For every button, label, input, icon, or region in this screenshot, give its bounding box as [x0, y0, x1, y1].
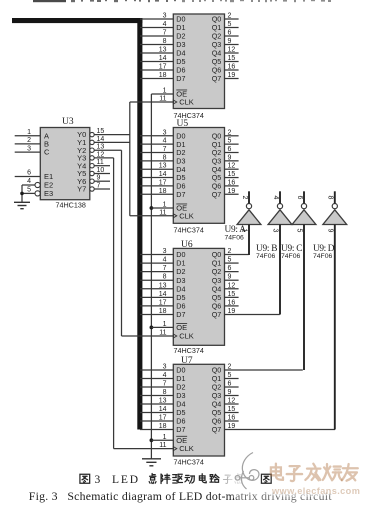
svg-text:13: 13: [159, 282, 167, 289]
wire U4 D5 (pin 14): [140, 61, 173, 63]
wire U7 OE (pin 1): [151, 439, 173, 441]
svg-text:7: 7: [97, 183, 101, 190]
wire U7 Q3 (pin 9): [225, 395, 239, 397]
inversion bubble Y3: [90, 156, 94, 160]
wire U4 Q2 (pin 6): [225, 35, 239, 37]
svg-text:2: 2: [228, 129, 232, 136]
svg-text:4: 4: [27, 178, 31, 185]
wire U9: B output (pin 4): [279, 191, 281, 203]
svg-text:15: 15: [228, 171, 236, 178]
svg-text:12: 12: [228, 163, 236, 170]
svg-text:3: 3: [27, 145, 31, 152]
svg-text:U3: U3: [62, 117, 74, 127]
wire U7 Q2 (pin 6): [225, 386, 239, 388]
wire U3 Y4 (pin 11): [94, 165, 110, 167]
svg-text:8: 8: [163, 389, 167, 396]
svg-text:19: 19: [228, 188, 236, 195]
wire U3 Y5 (pin 10): [94, 173, 110, 175]
svg-text:3: 3: [163, 129, 167, 136]
wire U4 OE (pin 1): [151, 93, 173, 95]
ground (OE net): [142, 459, 161, 466]
svg-text:Q7: Q7: [212, 425, 222, 434]
wire U6 Q1 (pin 5): [225, 262, 239, 264]
svg-text:74HC374: 74HC374: [174, 457, 204, 466]
clock triangle U5: [173, 214, 177, 218]
wire U5 D1 (pin 4): [140, 143, 173, 145]
inverter U9: B (74F06): [268, 204, 292, 225]
svg-text:Q7: Q7: [212, 310, 222, 319]
wire U4 D7 (pin 18): [140, 78, 173, 80]
wire U5 Q4 (pin 12): [225, 168, 239, 170]
wire E2-E3 tie: [21, 185, 23, 202]
watermark halo: [228, 459, 372, 497]
wire net Y2-CLK(U6) vertical: [121, 150, 123, 336]
svg-text:15: 15: [228, 291, 236, 298]
svg-text:3: 3: [163, 364, 167, 371]
wire U4 D2 (pin 7): [140, 35, 173, 37]
inversion bubble Y6: [90, 179, 94, 183]
svg-text:16: 16: [228, 64, 236, 71]
wire U3 pin 5 (E3): [22, 192, 35, 194]
wire U3 Y3 (pin 12): [94, 157, 113, 159]
svg-text:16: 16: [228, 415, 236, 422]
svg-text:15: 15: [228, 55, 236, 62]
wire U9: A input (pin 1): [248, 225, 250, 256]
svg-text:5: 5: [27, 187, 31, 194]
inversion bubble Y0: [90, 132, 94, 136]
svg-text:10: 10: [97, 167, 105, 174]
svg-text:74F06: 74F06: [256, 253, 275, 260]
svg-text:1: 1: [163, 321, 167, 328]
wire U5 D7 (pin 18): [140, 193, 173, 195]
svg-text:8: 8: [327, 196, 334, 200]
wire U5 Q7 (pin 19): [225, 193, 239, 195]
wire U9: C output (pin 6): [303, 191, 305, 203]
svg-text:9: 9: [97, 175, 101, 182]
wire U6 D7 (pin 18): [140, 313, 173, 315]
wire U7 D2 (pin 7): [140, 386, 173, 388]
wire U3 pin 1 (A): [15, 135, 41, 137]
svg-text:5: 5: [228, 138, 232, 145]
svg-text:13: 13: [159, 47, 167, 54]
svg-text:2: 2: [228, 364, 232, 371]
svg-text:7: 7: [163, 265, 167, 272]
wire U4 D0 (pin 3): [140, 18, 173, 20]
wire U3 Y6 (pin 9): [94, 180, 110, 182]
inversion bubble E2: [35, 182, 40, 187]
wire U6 D3 (pin 8): [140, 279, 173, 281]
wire U5 D2 (pin 7): [140, 152, 173, 154]
svg-text:17: 17: [159, 179, 167, 186]
svg-text:15: 15: [228, 406, 236, 413]
wire net Y0/Y1-CLK vertical: [129, 102, 131, 216]
wire U3 Y0 (pin 15): [94, 134, 130, 136]
wire U6 D0 (pin 3): [140, 254, 173, 256]
bus: thick data bus (horizontal top segment): [12, 18, 142, 23]
wire U4 Q1 (pin 5): [225, 27, 239, 29]
wire U6 Q0 (pin 2): [225, 254, 249, 256]
wire U7 Q7 (pin 19): [225, 429, 336, 431]
svg-text:D7: D7: [176, 74, 185, 83]
svg-text:9: 9: [228, 154, 232, 161]
svg-text:4: 4: [163, 372, 167, 379]
watermark logo swirl: [235, 453, 259, 490]
svg-text:74F06: 74F06: [225, 234, 244, 241]
svg-text:9: 9: [228, 274, 232, 281]
wire U5 Q3 (pin 9): [225, 160, 239, 162]
svg-text:7: 7: [163, 381, 167, 388]
wire U3 Y7 (pin 7): [94, 188, 110, 190]
wire U7 Q6 (pin 16): [225, 420, 239, 422]
wire net OE vertical: [150, 94, 152, 459]
svg-text:14: 14: [97, 136, 105, 143]
wire U9: D output (pin 8): [334, 191, 336, 203]
wire U4 CLK (pin 11): [130, 101, 174, 103]
svg-text:14: 14: [159, 55, 167, 62]
junction E2/E3: [20, 192, 24, 196]
svg-text:74HC138: 74HC138: [56, 201, 86, 210]
svg-text:3: 3: [163, 248, 167, 255]
wire U7 D4 (pin 13): [140, 403, 173, 405]
junction OE-U5: [150, 206, 154, 210]
svg-text:11: 11: [159, 96, 166, 103]
svg-text:5: 5: [296, 229, 303, 233]
caption line 1 (Chinese): 图3 LED 点阵驱动电路原理图: [80, 474, 90, 483]
svg-text:13: 13: [159, 163, 167, 170]
svg-text:14: 14: [159, 406, 167, 413]
clock triangle U6: [173, 334, 177, 338]
svg-text:D7: D7: [176, 310, 185, 319]
wire U6 OE (pin 1): [151, 326, 173, 328]
svg-text:11: 11: [159, 209, 166, 216]
op U5 octal flip-flop 74HC374: [173, 128, 224, 224]
inversion bubble E3: [35, 191, 40, 196]
svg-text:17: 17: [159, 415, 167, 422]
inverter U9: C (74F06): [292, 204, 316, 225]
svg-text:U7: U7: [181, 356, 193, 366]
svg-text:2: 2: [228, 248, 232, 255]
svg-text:Q7: Q7: [212, 190, 222, 199]
svg-text:3: 3: [163, 13, 167, 20]
svg-text:6: 6: [228, 146, 232, 153]
svg-text:17: 17: [159, 64, 167, 71]
wire U5 D5 (pin 14): [140, 177, 173, 179]
bus: thick data bus (vertical segment): [137, 18, 142, 430]
svg-text:4: 4: [163, 257, 167, 264]
svg-text:D7: D7: [176, 190, 185, 199]
svg-text:19: 19: [228, 72, 236, 79]
svg-text:6: 6: [228, 265, 232, 272]
svg-text:11: 11: [97, 159, 104, 166]
inversion bubble Y4: [90, 164, 94, 168]
svg-text:6: 6: [228, 381, 232, 388]
caption last char 图: [261, 474, 271, 483]
svg-text:E3: E3: [44, 189, 53, 198]
svg-text:14: 14: [159, 291, 167, 298]
svg-text:CLK: CLK: [179, 211, 194, 220]
svg-text:9: 9: [228, 38, 232, 45]
wire U6 D4 (pin 13): [140, 288, 173, 290]
wire U4 Q7 (pin 19): [225, 78, 239, 80]
svg-text:74F06: 74F06: [281, 253, 300, 260]
wire U7 Q0 (pin 2): [225, 369, 303, 371]
wire U5 D3 (pin 8): [140, 160, 173, 162]
wire U5 Q5 (pin 15): [225, 177, 239, 179]
svg-text:14: 14: [159, 171, 167, 178]
wire U7 D7 (pin 18): [140, 429, 173, 431]
wire U4 Q6 (pin 16): [225, 69, 239, 71]
wire U3 Y1 (pin 14): [94, 141, 130, 143]
svg-text:2: 2: [228, 13, 232, 20]
wire U7 Q5 (pin 15): [225, 412, 239, 414]
inversion bubble Y5: [90, 171, 94, 175]
svg-text:1: 1: [163, 434, 167, 441]
junction OE-U7: [150, 438, 154, 442]
svg-text:U6: U6: [181, 240, 193, 250]
svg-text:12: 12: [228, 47, 236, 54]
wire U7 D0 (pin 3): [140, 369, 173, 371]
svg-text:12: 12: [97, 151, 105, 158]
svg-text:11: 11: [159, 330, 166, 337]
wire U5 Q2 (pin 6): [225, 152, 239, 154]
svg-text:Y7: Y7: [77, 185, 86, 194]
wire U4 Q4 (pin 12): [225, 52, 239, 54]
svg-text:4: 4: [163, 138, 167, 145]
wire U6 Q3 (pin 9): [225, 279, 239, 281]
inversion bubble Y1: [90, 140, 94, 144]
wire U7 CLK (pin 11): [114, 448, 174, 450]
svg-text:5: 5: [228, 21, 232, 28]
wire net Y3-CLK(U7) vertical: [113, 158, 115, 449]
wire U5 D0 (pin 3): [140, 135, 173, 137]
wire U4 Q0 (pin 2): [225, 18, 239, 20]
wire U5 D6 (pin 17): [140, 185, 173, 187]
svg-text:74HC374: 74HC374: [174, 346, 204, 355]
svg-text:17: 17: [159, 299, 167, 306]
wire U6 D5 (pin 14): [140, 296, 173, 298]
wire U9: D input (pin 9): [334, 225, 336, 430]
svg-text:12: 12: [228, 398, 236, 405]
inversion bubble Y2: [90, 148, 94, 152]
svg-text:18: 18: [159, 188, 167, 195]
svg-text:www.elecfans.com: www.elecfans.com: [271, 486, 360, 496]
wire U9: C input (pin 5): [303, 225, 305, 371]
wire U5 OE (pin 1): [151, 207, 173, 209]
svg-text:16: 16: [228, 299, 236, 306]
svg-text:19: 19: [228, 308, 236, 315]
svg-text:6: 6: [27, 170, 31, 177]
watermark text 电子发烧友: [271, 464, 283, 480]
clock triangle U4: [173, 100, 177, 104]
svg-text:16: 16: [228, 179, 236, 186]
svg-text:11: 11: [159, 442, 166, 449]
svg-text:1: 1: [27, 129, 31, 136]
svg-text:CLK: CLK: [179, 332, 194, 341]
wire U3 pin 6 (E1): [15, 176, 41, 178]
svg-text:74F06: 74F06: [313, 253, 332, 260]
wire U5 D4 (pin 13): [140, 168, 173, 170]
wire U4 Q3 (pin 9): [225, 44, 239, 46]
svg-text:74HC374: 74HC374: [174, 226, 204, 235]
op U4 octal flip-flop 74HC374: [173, 14, 224, 109]
svg-text:2: 2: [241, 196, 248, 200]
wire U4 D1 (pin 4): [140, 27, 173, 29]
junction OE-U6: [150, 326, 154, 330]
svg-text:6: 6: [228, 30, 232, 37]
svg-text:6: 6: [296, 196, 303, 200]
svg-text:2: 2: [27, 137, 31, 144]
wire U6 Q6 (pin 16): [225, 305, 239, 307]
svg-text:7: 7: [163, 146, 167, 153]
svg-text:4: 4: [272, 196, 279, 200]
svg-text:15: 15: [97, 128, 105, 135]
svg-text:5: 5: [228, 372, 232, 379]
wire U6 CLK (pin 11): [122, 335, 174, 337]
op U7 octal flip-flop 74HC374: [173, 364, 224, 456]
op U6 octal flip-flop 74HC374: [173, 248, 224, 345]
svg-text:U9: A: U9: A: [225, 225, 247, 235]
wire U7 Q4 (pin 12): [225, 403, 239, 405]
svg-text:9: 9: [326, 229, 333, 233]
svg-text:D7: D7: [176, 425, 185, 434]
wire U7 D1 (pin 4): [140, 378, 173, 380]
svg-text:CLK: CLK: [179, 98, 194, 107]
svg-text:18: 18: [159, 423, 167, 430]
svg-text:18: 18: [159, 308, 167, 315]
op U3 decoder 74HC138: [40, 128, 90, 200]
wire U7 D6 (pin 17): [140, 420, 173, 422]
wire U6 D2 (pin 7): [140, 271, 173, 273]
svg-text:8: 8: [163, 38, 167, 45]
wire U7 Q1 (pin 5): [225, 378, 239, 380]
wire U7 D3 (pin 8): [140, 395, 173, 397]
wire U3 pin 2 (B): [15, 143, 41, 145]
inversion bubble Y7: [90, 187, 94, 191]
svg-text:5: 5: [228, 257, 232, 264]
wire U6 Q2 (pin 6): [225, 271, 239, 273]
wire U9: B input (pin 3): [279, 225, 281, 315]
svg-text:9: 9: [228, 389, 232, 396]
svg-text:3: 3: [95, 474, 101, 486]
ground (U3 enable): [14, 202, 30, 208]
wire U5 Q1 (pin 5): [225, 143, 239, 145]
wire U5 Q6 (pin 16): [225, 185, 239, 187]
wire U5 CLK (pin 11): [130, 215, 174, 217]
svg-text:19: 19: [228, 423, 236, 430]
wire U9: A output (pin 2): [248, 191, 250, 203]
wire U5 Q0 (pin 2): [225, 135, 239, 137]
wire U6 D1 (pin 4): [140, 262, 173, 264]
svg-text:U5: U5: [177, 119, 189, 129]
wire U4 D6 (pin 17): [140, 69, 173, 71]
svg-text:C: C: [44, 148, 50, 157]
wire U4 D4 (pin 13): [140, 52, 173, 54]
svg-text:1: 1: [163, 202, 167, 209]
inverter U9: A (74F06): [237, 204, 261, 225]
wire U3 pin 4 (E2): [22, 184, 35, 186]
wire U4 D3 (pin 8): [140, 44, 173, 46]
clipped text line at top edge: [33, 0, 331, 2]
wire U7 D5 (pin 14): [140, 412, 173, 414]
caption hidden chars (washed by watermark): [223, 475, 232, 483]
clock triangle U7: [173, 447, 177, 451]
wire U3 Y2 (pin 13): [94, 149, 121, 151]
svg-text:7: 7: [163, 30, 167, 37]
svg-text:1: 1: [163, 88, 167, 95]
wire U4 Q5 (pin 15): [225, 61, 239, 63]
svg-text:18: 18: [159, 72, 167, 79]
wire U6 Q7 (pin 19): [225, 313, 280, 315]
svg-text:8: 8: [163, 274, 167, 281]
inverter U9: D (74F06): [323, 204, 347, 225]
svg-text:13: 13: [159, 398, 167, 405]
svg-text:3: 3: [272, 229, 279, 233]
wire U6 Q5 (pin 15): [225, 296, 239, 298]
svg-text:CLK: CLK: [179, 444, 194, 453]
svg-text:4: 4: [163, 21, 167, 28]
svg-text:Q7: Q7: [212, 74, 222, 83]
wire U6 D6 (pin 17): [140, 305, 173, 307]
wire U6 Q4 (pin 12): [225, 288, 239, 290]
svg-text:8: 8: [163, 154, 167, 161]
svg-text:12: 12: [228, 282, 236, 289]
wire U3 pin 3 (C): [15, 151, 41, 153]
svg-text:13: 13: [97, 144, 105, 151]
svg-text:LED: LED: [112, 474, 138, 486]
